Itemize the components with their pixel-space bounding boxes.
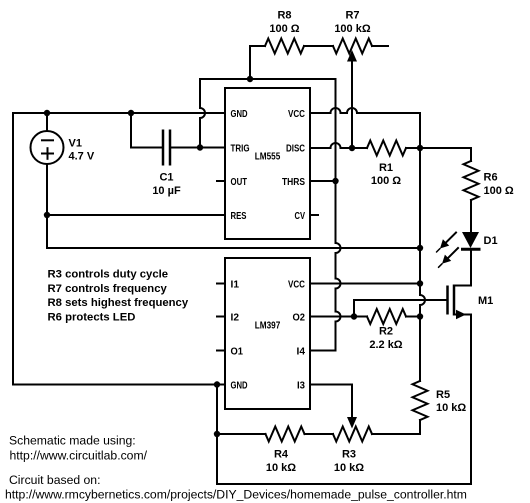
node: gate branch junction: [351, 313, 357, 319]
svg-text:R3 controls duty cycle: R3 controls duty cycle: [48, 269, 169, 281]
wire: THRS to vertical: [310, 180, 336, 182]
svg-text:R6: R6: [484, 172, 498, 184]
resistor R4 10 kOhm: [266, 427, 305, 474]
wire: top horizontal net: [200, 78, 336, 80]
wire: VCC555 net with two hops, down to R1 right: [310, 108, 420, 148]
node: THRS junction: [332, 178, 338, 184]
svg-text:R3: R3: [342, 449, 356, 461]
wire: TRIG drop with hop over ground wire: [200, 79, 205, 148]
svg-text:R7: R7: [345, 10, 359, 22]
IC U1 LM555: [225, 88, 310, 239]
wire: gate riser and gate wire: [354, 300, 447, 317]
potentiometer R3 10 kOhm: [333, 427, 372, 474]
wire: R8 to R7: [304, 45, 333, 47]
transistor M1 N-MOSFET: [448, 285, 494, 485]
wire: right vertical with hop over gate wire: [420, 148, 425, 381]
svg-text:100 Ω: 100 Ω: [371, 175, 401, 187]
svg-text:R7 controls frequency: R7 controls frequency: [48, 283, 168, 295]
svg-text:GND: GND: [231, 380, 248, 391]
svg-text:R4: R4: [274, 449, 289, 461]
svg-text:10 kΩ: 10 kΩ: [266, 462, 296, 474]
svg-text:100 Ω: 100 Ω: [484, 185, 514, 197]
wire: R1 right to R6 corner: [406, 147, 471, 149]
pin stub I1: [217, 283, 225, 285]
potentiometer R7 100 kOhm: [333, 10, 388, 148]
pin stub CV: [310, 214, 318, 216]
svg-text:VCC: VCC: [288, 109, 305, 120]
node: R8 branch junction: [247, 76, 253, 82]
resistor R2 2.2 kOhm: [367, 309, 406, 351]
svg-text:100 Ω: 100 Ω: [269, 23, 299, 35]
resistor R8 100 Ohm: [250, 10, 304, 54]
svg-text:Circuit based on:: Circuit based on:: [9, 473, 100, 487]
node: R1 right junction: [417, 145, 423, 151]
pin stub O1: [217, 350, 225, 352]
wire: V1 down to lower rail under LM555: [47, 215, 420, 248]
capacitor C1 10uF: [131, 113, 200, 197]
svg-text:DISC: DISC: [286, 143, 305, 154]
wire: long vertical net to I4 with three hops: [310, 79, 341, 351]
svg-text:2.2 kΩ: 2.2 kΩ: [369, 339, 402, 351]
svg-text:I2: I2: [231, 312, 240, 323]
svg-text:4.7 V: 4.7 V: [69, 151, 95, 163]
wire: R8 drop: [249, 46, 251, 79]
svg-text:GND: GND: [231, 109, 248, 120]
svg-text:OUT: OUT: [231, 177, 248, 188]
svg-text:LM555: LM555: [255, 152, 281, 163]
svg-text:I1: I1: [231, 279, 240, 290]
pin stub OUT: [217, 180, 225, 182]
svg-text:R6 protects LED: R6 protects LED: [48, 311, 136, 323]
svg-text:C1: C1: [159, 172, 173, 184]
svg-text:TRIG: TRIG: [231, 143, 250, 154]
svg-text:D1: D1: [484, 235, 498, 247]
wire: bottom resistor rail: [217, 433, 266, 435]
resistor R5 10 kOhm: [413, 381, 467, 434]
wire: DISC net with hop: [310, 143, 367, 148]
svg-text:I4: I4: [297, 346, 306, 357]
wire: bottom ground-return rail: [217, 483, 471, 485]
resistor R1 100 Ohm: [367, 141, 406, 188]
wire: left vertical to bottom rail: [216, 385, 218, 485]
svg-text:R8: R8: [277, 10, 291, 22]
svg-text:O1: O1: [231, 346, 244, 357]
node: lower rail junction: [417, 245, 423, 251]
svg-text:R5: R5: [436, 389, 450, 401]
svg-text:M1: M1: [478, 295, 493, 307]
annotation: credits: [5, 434, 467, 502]
resistor R6 100 Ohm: [420, 148, 514, 232]
wire: O2 net: [310, 316, 367, 318]
svg-text:Schematic made using:: Schematic made using:: [9, 434, 136, 448]
annotation: design notes: [48, 269, 189, 324]
node: C1 branch junction: [128, 110, 134, 116]
svg-text:R2: R2: [379, 326, 393, 338]
svg-text:R8 sets highest frequency: R8 sets highest frequency: [48, 297, 189, 309]
node: LM397 GND junction: [214, 381, 220, 387]
IC U2 LM397: [225, 258, 310, 409]
LED D1: [461, 232, 498, 286]
ground net wire: left border: [13, 113, 225, 385]
pin stub I2: [217, 316, 225, 318]
wire: LM397 VCC net: [310, 283, 420, 285]
node: RES junction: [44, 212, 50, 218]
svg-text:VCC: VCC: [288, 279, 305, 290]
svg-text:10 kΩ: 10 kΩ: [334, 462, 364, 474]
svg-text:10 kΩ: 10 kΩ: [436, 402, 466, 414]
wire: RES net from V1 bottom: [47, 214, 225, 216]
LED light arrow 2: [439, 248, 459, 267]
svg-text:I3: I3: [297, 380, 306, 391]
svg-text:V1: V1: [69, 137, 82, 149]
wire: I3 to R3 wiper arrow: [310, 385, 352, 420]
node: TRIG junction: [197, 144, 203, 150]
node: VCC397 junction: [417, 280, 423, 286]
node: R2 right junction: [417, 313, 423, 319]
svg-text:CV: CV: [295, 211, 306, 222]
voltage source V1 4.7 V: [31, 113, 95, 215]
svg-text:LM397: LM397: [255, 320, 281, 331]
node: R7 wiper junction: [349, 145, 355, 151]
node: R4 rail junction: [214, 431, 220, 437]
svg-text:O2: O2: [293, 312, 306, 323]
svg-text:RES: RES: [231, 211, 247, 222]
LED light arrow 1: [437, 233, 457, 253]
svg-text:http://www.rmcybernetics.com/p: http://www.rmcybernetics.com/projects/DI…: [5, 487, 467, 501]
svg-text:100 kΩ: 100 kΩ: [334, 23, 371, 35]
svg-text:http://www.circuitlab.com/: http://www.circuitlab.com/: [10, 449, 148, 463]
node: V1 top junction: [44, 110, 50, 116]
svg-text:THRS: THRS: [282, 177, 305, 188]
svg-text:R1: R1: [379, 162, 393, 174]
svg-text:10 µF: 10 µF: [152, 185, 181, 197]
